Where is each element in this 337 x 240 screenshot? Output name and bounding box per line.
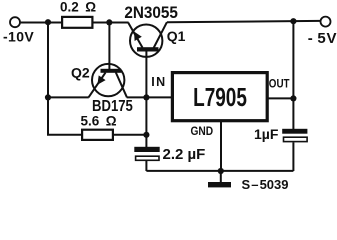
svg-text:L7905: L7905 (193, 82, 247, 112)
capacitor C1 2.2uF (134, 147, 159, 171)
node ground junction (218, 168, 224, 174)
wire Q2 base lead (108, 22, 110, 69)
wire (94, 22, 129, 24)
svg-text:1µF: 1µF (254, 126, 279, 142)
node IN junction (143, 94, 149, 100)
regulator U1 L7905 (172, 73, 267, 121)
node R2 junction (143, 132, 149, 138)
resistor R1 0.2 ohm (62, 17, 92, 28)
node output junction (290, 18, 296, 24)
svg-text:0.2 Ω: 0.2 Ω (60, 0, 96, 15)
ground (208, 171, 231, 187)
node input junction (45, 19, 51, 25)
svg-text:Q1: Q1 (167, 28, 186, 44)
wire OUT (269, 97, 294, 99)
node Q2 base junction (106, 19, 112, 25)
output terminal (321, 17, 331, 27)
resistor R2 5.6 ohm (82, 130, 113, 140)
transistor Q2 BD175 (89, 64, 127, 97)
wire (21, 22, 62, 24)
node mid-left junction (45, 94, 51, 100)
svg-text:2.2 µF: 2.2 µF (163, 146, 206, 163)
capacitor C2 1uF (282, 129, 307, 171)
wire (114, 134, 146, 136)
svg-text:S – 5039: S – 5039 (242, 177, 289, 192)
wire GND lead (220, 121, 222, 171)
svg-text:GND: GND (191, 125, 214, 138)
wire mid right segment (127, 96, 171, 98)
transistor Q1 2N3055 (128, 22, 167, 57)
svg-text:5.6 Ω: 5.6 Ω (81, 114, 117, 129)
node OUT junction (290, 95, 296, 101)
svg-text:- 5V: - 5V (308, 30, 337, 47)
svg-text:-10V: -10V (3, 29, 34, 45)
svg-text:OUT: OUT (269, 77, 290, 90)
wire mid left segment (48, 96, 89, 98)
wire bottom rail (146, 170, 293, 172)
wire left vertical (48, 22, 82, 135)
wire right vertical (292, 21, 294, 129)
svg-text:Q2: Q2 (71, 65, 90, 81)
wire top right rail (167, 21, 320, 22)
svg-text:2N3055: 2N3055 (124, 3, 178, 22)
input terminal (10, 17, 20, 27)
wire Q1 base lead (145, 52, 147, 148)
svg-text:IN: IN (151, 75, 166, 89)
